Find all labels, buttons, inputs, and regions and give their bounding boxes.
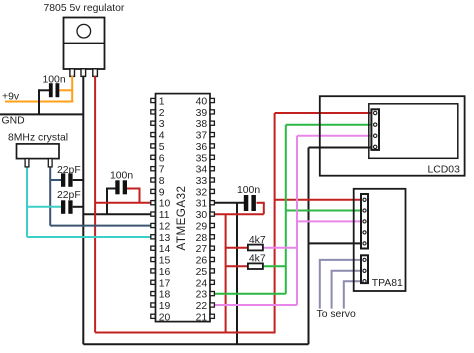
regulator pin 2 ground leg (81, 69, 86, 77)
wire +5v bottom rail (95, 332, 275, 334)
svg-text:GND: GND (2, 116, 25, 127)
wire crystal right leg vertical XTAL2 (49, 167, 51, 226)
IC U1 pin 34 (196, 165, 215, 176)
svg-text:100n: 100n (237, 185, 260, 196)
wire +5v vertical to LCD03 (274, 113, 276, 334)
IC U1 pin 40 (196, 97, 215, 108)
wire capacitor C2 right plate to ground spine (73, 179, 84, 181)
wire TPA81 pin 1 +5v horizontal (275, 199, 365, 201)
svg-text:18: 18 (159, 290, 171, 301)
op IC U1 ATMEGA32 body (156, 94, 211, 322)
module TPA81 outer box (354, 189, 406, 291)
svg-text:14: 14 (159, 244, 171, 255)
svg-text:17: 17 (159, 278, 171, 289)
wire TPA81 servo pin 2 (332, 271, 365, 309)
capacitor C3 22pF plates (61, 200, 73, 214)
svg-text:30: 30 (196, 210, 208, 221)
wire +9v vertical to regulator input (71, 76, 73, 103)
wire capacitor C4 right plate horizontal (127, 188, 140, 190)
svg-text:22pF: 22pF (57, 190, 81, 201)
svg-text:To servo: To servo (317, 309, 356, 320)
wire capacitor C1 right plate to +9v (59, 89, 72, 91)
wire ATMEGA pin 23 SDA horizontal (215, 293, 286, 295)
capacitor C5 100n plates (244, 195, 256, 211)
wire TPA81 servo pin 3 (344, 281, 365, 308)
IC U1 pin 30 (196, 210, 215, 221)
regulator pin 3 output leg (93, 69, 98, 77)
wire TPA81 pin 5 ground horizontal (309, 242, 365, 244)
module TPA81 i2c connector (361, 194, 368, 249)
wire capacitor C5 right plate horizontal (257, 202, 264, 204)
svg-text:22: 22 (196, 301, 208, 312)
IC U1 pin 26 (196, 256, 215, 267)
svg-text:100n: 100n (110, 171, 133, 182)
svg-text:1: 1 (159, 97, 165, 108)
svg-text:15: 15 (159, 256, 171, 267)
svg-text:8: 8 (159, 176, 165, 187)
regulator pin 1 input leg (70, 69, 75, 77)
IC U1 pin 10 (151, 199, 171, 210)
svg-text:31: 31 (196, 199, 208, 210)
IC U1 pin 14 (151, 244, 171, 255)
wire GND rail horizontal (0, 113, 83, 115)
IC U1 pin 12 (151, 222, 171, 233)
IC U1 pin 8 (151, 176, 165, 187)
svg-text:9: 9 (159, 187, 165, 198)
wire ATMEGA pin 10 VCC (95, 202, 151, 204)
IC U1 pin 20 (151, 312, 171, 323)
svg-text:12: 12 (159, 222, 171, 233)
svg-text:2: 2 (159, 108, 165, 119)
wire SCL vertical (296, 136, 298, 305)
svg-text:16: 16 (159, 267, 171, 278)
IC U1 pin 17 (151, 278, 171, 289)
IC U1 pin 37 (196, 131, 215, 142)
module LCD03 outer box (320, 96, 465, 176)
IC U1 pin 1 (151, 97, 165, 108)
svg-text:LCD03: LCD03 (428, 165, 461, 176)
voltage regulator U2 7805 body (64, 18, 105, 70)
wire +9v horizontal (5, 101, 73, 103)
wire ground vertical from pin 31 to bottom rail (236, 203, 238, 344)
wire LCD03 pin 3 SCL horizontal (297, 135, 375, 137)
IC U1 pin 4 (151, 131, 165, 142)
IC U1 pin 25 (196, 267, 215, 278)
wire ATMEGA pin 13 XTAL1 horizontal (27, 236, 152, 238)
svg-text:24: 24 (196, 278, 208, 289)
IC U1 pin 16 (151, 267, 171, 278)
resistor R2 4k7 body (248, 263, 263, 269)
wire resistor R2 left lead (226, 265, 248, 267)
IC U1 pin 22 (196, 301, 215, 312)
svg-text:23: 23 (196, 290, 208, 301)
crystal X1 body (17, 144, 60, 159)
IC U1 pin 29 (196, 222, 215, 233)
svg-text:3: 3 (159, 119, 165, 130)
wire resistor R2 right lead (263, 265, 286, 267)
svg-text:35: 35 (196, 153, 208, 164)
module LCD03 connector (371, 109, 379, 150)
wire capacitor C4 left plate to pin 11 vertical (106, 188, 108, 215)
svg-text:19: 19 (159, 301, 171, 312)
wire capacitor C1 left to GND vertical (38, 89, 40, 114)
wire +5v vertical feeding pullups (225, 214, 227, 333)
wire resistor R1 left lead (226, 247, 248, 249)
IC U1 pin 7 (151, 165, 165, 176)
svg-text:26: 26 (196, 256, 208, 267)
svg-text:21: 21 (196, 312, 208, 323)
IC U1 pin 5 (151, 142, 165, 153)
svg-text:37: 37 (196, 131, 208, 142)
wire TPA81 pin 3 SCL horizontal (297, 220, 365, 222)
IC U1 pin 27 (196, 244, 215, 255)
wire capacitor C1 left plate horizontal (39, 89, 49, 91)
wire crystal left leg vertical XTAL1 (26, 167, 28, 237)
module TPA81 servo connector (361, 255, 368, 283)
svg-text:33: 33 (196, 176, 208, 187)
IC U1 pin 33 (196, 176, 215, 187)
wire ATMEGA pin 22 SCL horizontal (215, 304, 298, 306)
wire capacitor C3 left lead (27, 206, 61, 208)
svg-text:20: 20 (159, 312, 171, 323)
svg-text:36: 36 (196, 142, 208, 153)
crystal X1 left leg (25, 159, 29, 167)
wire capacitor C4 left plate horizontal (107, 188, 116, 190)
svg-text:100n: 100n (43, 75, 66, 86)
IC U1 pin 3 (151, 119, 165, 130)
capacitor C4 100n plates (115, 180, 127, 194)
wire capacitor C5 to pin 30 vertical (263, 202, 265, 214)
svg-text:4: 4 (159, 131, 165, 142)
svg-text:39: 39 (196, 108, 208, 119)
IC U1 pin 31 (196, 199, 215, 210)
IC U1 pin 19 (151, 301, 171, 312)
wire +5v vertical from regulator output (94, 76, 96, 333)
wire resistor R1 right lead (263, 247, 297, 249)
IC U1 pin 39 (196, 108, 215, 119)
IC U1 pin 11 (151, 210, 170, 221)
IC U1 pin 38 (196, 119, 215, 130)
IC U1 pin 36 (196, 142, 215, 153)
wire ATMEGA pin 31 GND to capacitor C5 (215, 202, 245, 204)
IC U1 pin 32 (196, 187, 215, 198)
svg-text:6: 6 (159, 153, 165, 164)
svg-text:TPA81: TPA81 (372, 278, 403, 289)
wire ATMEGA pin 11 GND (83, 213, 151, 215)
module LCD03 display box (369, 104, 458, 159)
IC U1 pin 13 (151, 233, 171, 244)
IC U1 pin 28 (196, 233, 215, 244)
capacitor C1 100n plates (49, 83, 59, 97)
IC U1 pin 35 (196, 153, 215, 164)
IC U1 pin 15 (151, 256, 171, 267)
wire LCD03 pin 2 SDA horizontal (286, 124, 375, 126)
wire capacitor C4 right plate to pin 10 vertical (139, 188, 141, 203)
wire ground spine vertical from regulator pin2 (82, 76, 84, 345)
svg-text:40: 40 (196, 97, 208, 108)
wire SDA vertical (285, 125, 287, 294)
svg-text:27: 27 (196, 244, 208, 255)
IC U1 pin 18 (151, 290, 171, 301)
IC U1 pin 24 (196, 278, 215, 289)
svg-text:7805 5v regulator: 7805 5v regulator (44, 3, 125, 14)
svg-text:11: 11 (159, 210, 170, 221)
wire TPA81 pin 2 SDA horizontal (286, 210, 365, 212)
wire capacitor C3 right plate to ground spine (73, 206, 84, 208)
svg-text:25: 25 (196, 267, 208, 278)
IC U1 pin 21 (196, 312, 215, 323)
wire TPA81 servo pin 1 (320, 260, 365, 309)
svg-text:38: 38 (196, 119, 208, 130)
crystal X1 right leg (48, 159, 52, 167)
svg-text:29: 29 (196, 222, 208, 233)
svg-text:32: 32 (196, 187, 208, 198)
svg-text:7: 7 (159, 165, 165, 176)
IC U1 pin 6 (151, 153, 165, 164)
wire ground bottom rail (83, 343, 308, 345)
wire capacitor C2 left lead (50, 179, 61, 181)
svg-text:10: 10 (159, 199, 171, 210)
svg-text:13: 13 (159, 233, 171, 244)
IC U1 pin 23 (196, 290, 215, 301)
IC U1 pin 9 (151, 187, 165, 198)
svg-text:8MHz crystal: 8MHz crystal (8, 133, 68, 144)
resistor R1 4k7 body (248, 245, 263, 251)
wire ground vertical to LCD03 (308, 148, 310, 345)
svg-text:5: 5 (159, 142, 165, 153)
capacitor C2 22pF plates (61, 173, 73, 187)
wire LCD03 pin 4 ground horizontal (309, 147, 376, 149)
IC U1 pin 2 (151, 108, 165, 119)
wire ATMEGA pin 12 XTAL2 horizontal (50, 225, 151, 227)
svg-text:28: 28 (196, 233, 208, 244)
svg-text:34: 34 (196, 165, 208, 176)
wire ATMEGA pin 30 AVCC (215, 213, 264, 215)
wire LCD03 pin 1 +5v horizontal (275, 112, 376, 114)
svg-text:ATMEGA32: ATMEGA32 (175, 186, 188, 251)
